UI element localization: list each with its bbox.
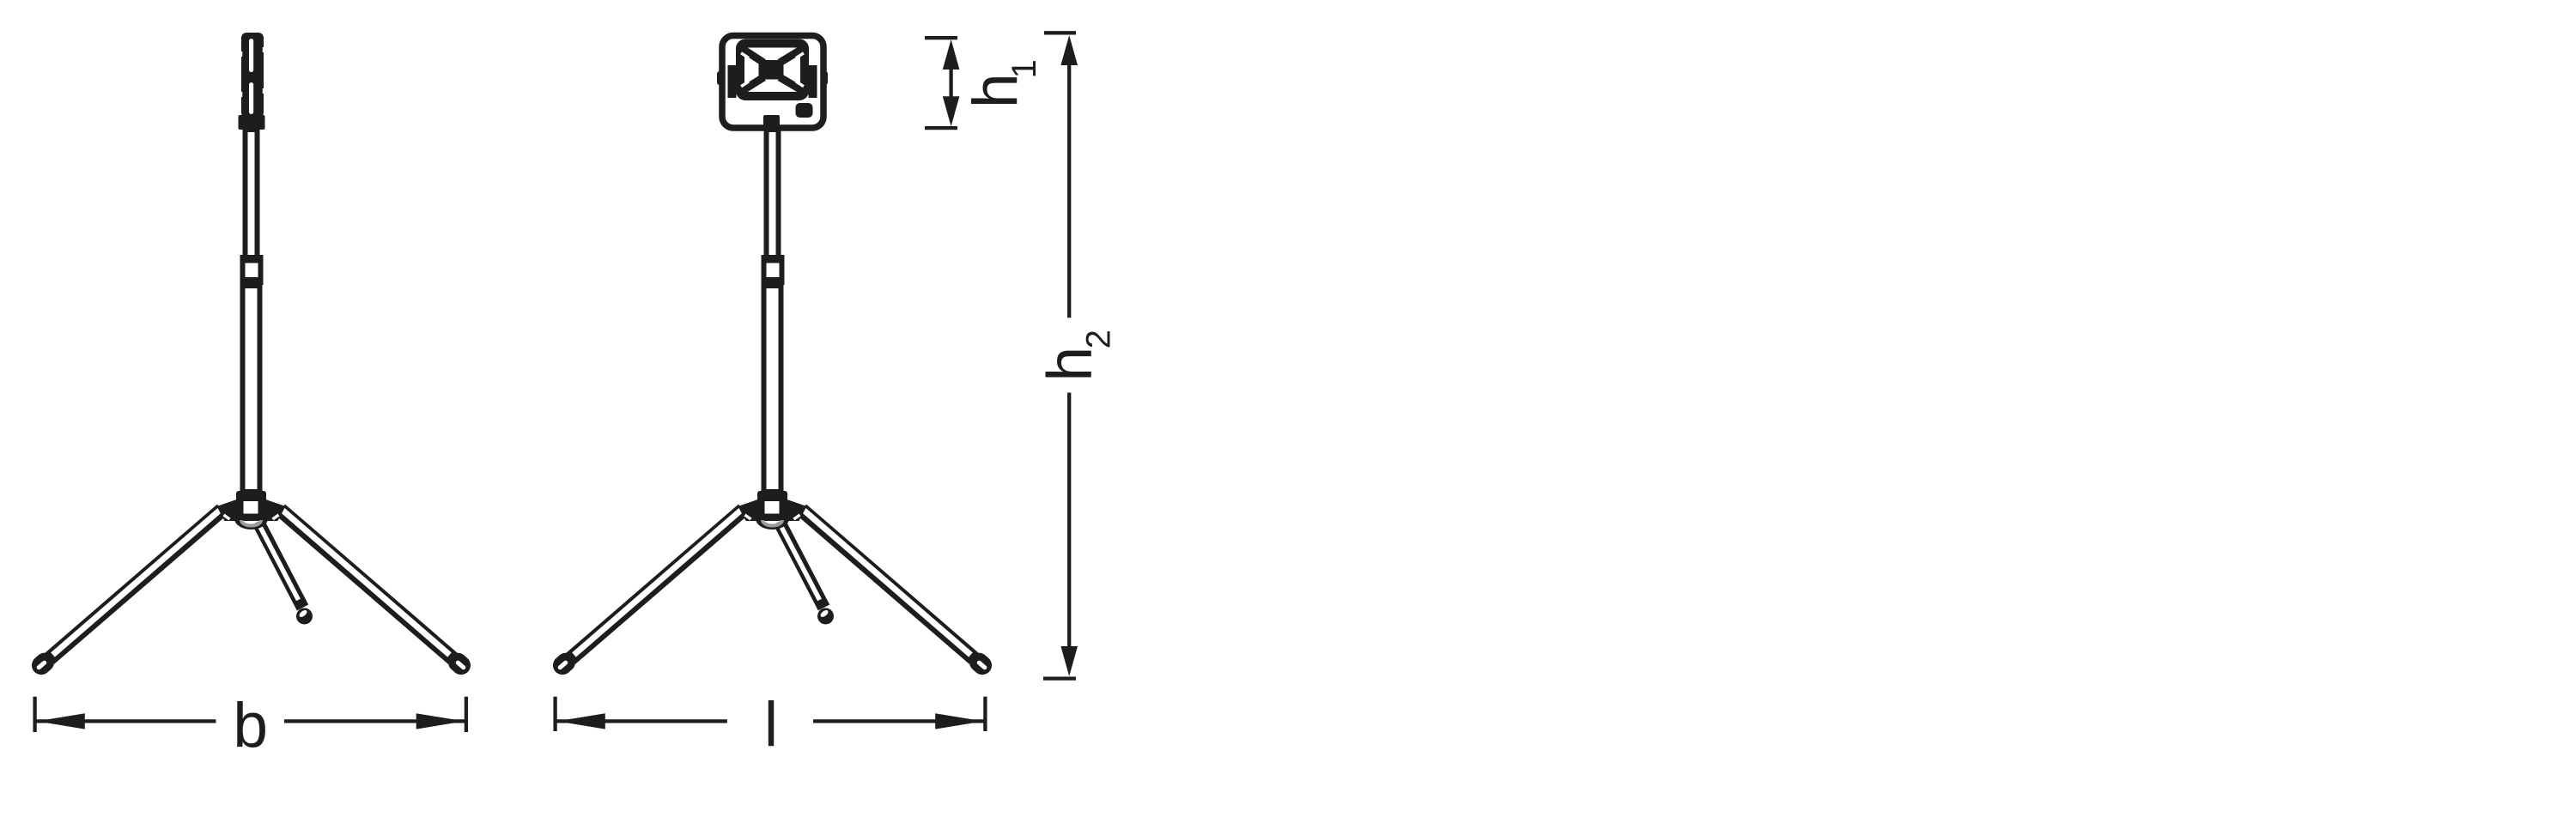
lamp face frame bbox=[740, 44, 805, 97]
arrow h1 up bbox=[943, 39, 960, 70]
dimension h1 ticks bbox=[925, 36, 957, 39]
reflector diagonal top-left bbox=[744, 50, 764, 64]
junction nub bbox=[796, 103, 813, 118]
tripod stand bbox=[560, 130, 985, 668]
housing corner slashes bbox=[730, 42, 736, 49]
reflector diagonal bottom-right bbox=[780, 77, 802, 90]
floodlight housing frame bbox=[722, 36, 823, 129]
arrow b right bbox=[416, 713, 465, 729]
arrow h1 down bbox=[943, 96, 960, 126]
top mounting spigot bbox=[241, 33, 264, 118]
svg-text:b: b bbox=[233, 691, 268, 760]
right pivot knob bbox=[821, 71, 828, 85]
left side boss bbox=[728, 65, 737, 98]
pole knuckle bbox=[763, 115, 780, 131]
svg-text:l: l bbox=[764, 690, 778, 760]
arrow l left bbox=[557, 713, 605, 729]
dimension b line bbox=[35, 719, 216, 723]
dimension l extension ticks bbox=[553, 697, 556, 731]
spigot collar bbox=[239, 115, 265, 130]
LED centre block bbox=[759, 60, 784, 80]
svg-text:h2: h2 bbox=[1036, 330, 1118, 381]
svg-text:h1: h1 bbox=[961, 59, 1043, 108]
dimension l line bbox=[556, 719, 727, 723]
tripod stand bbox=[39, 130, 464, 668]
face corner slashes bbox=[741, 53, 749, 58]
reflector diagonal bottom-left bbox=[744, 77, 764, 90]
spigot edge nicks bbox=[240, 51, 243, 57]
dimension h2 line bbox=[1067, 64, 1071, 318]
arrow h2 down bbox=[1060, 646, 1078, 676]
reflector diagonal top-right bbox=[780, 50, 802, 64]
arrow b left bbox=[37, 713, 85, 729]
dimension h2 ticks bbox=[1044, 31, 1076, 34]
arrow h2 up bbox=[1060, 35, 1078, 65]
left pivot knob bbox=[717, 71, 724, 85]
right side boss bbox=[809, 65, 817, 98]
dimension h1 line bbox=[949, 67, 952, 99]
dimension b extension ticks bbox=[33, 697, 36, 732]
arrow l right bbox=[935, 713, 983, 729]
